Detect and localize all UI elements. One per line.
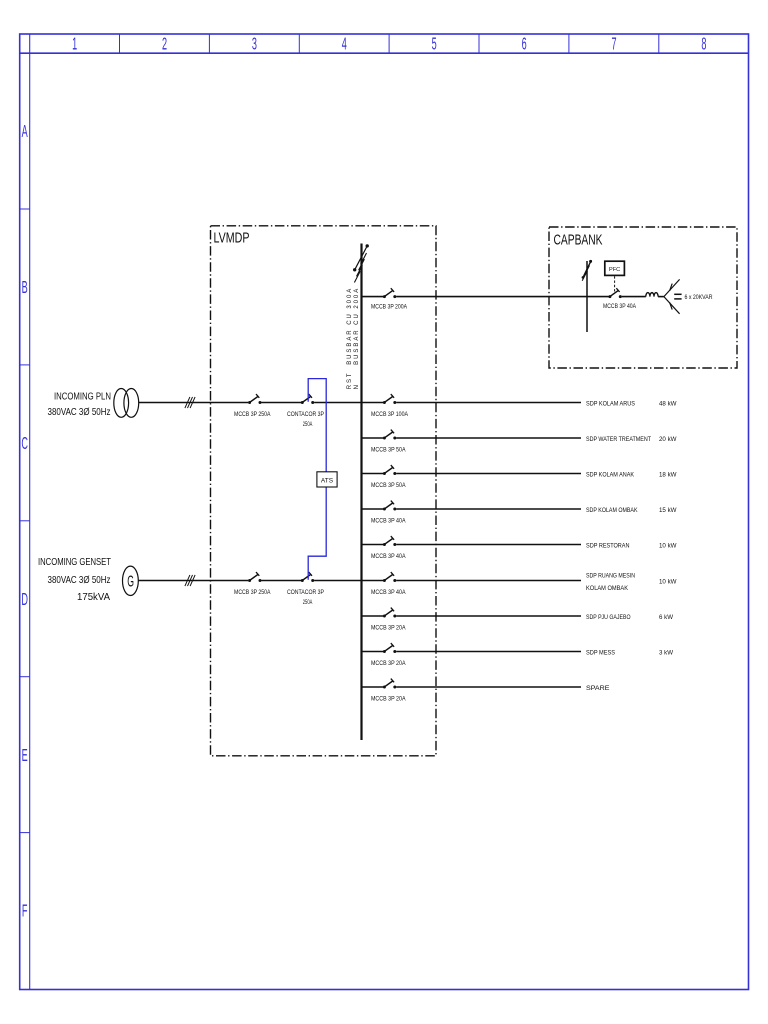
svg-text:BUSBAR CU 200A: BUSBAR CU 200A bbox=[354, 287, 360, 365]
wire capbank feeder into CAPBANK panel bbox=[396, 296, 608, 298]
wire PLN feed to MCCB bbox=[139, 402, 249, 404]
svg-text:A: A bbox=[22, 121, 29, 141]
svg-text:10 kW: 10 kW bbox=[659, 578, 677, 585]
svg-text:INCOMING GENSET: INCOMING GENSET bbox=[38, 557, 111, 568]
svg-text:6: 6 bbox=[522, 33, 527, 53]
wire reactor to capacitor bank bbox=[658, 296, 664, 298]
svg-text:MCCB 3P 50A: MCCB 3P 50A bbox=[371, 482, 406, 489]
wire busbar to breaker (SDP PJU GAJEBO) bbox=[362, 615, 384, 617]
wire breaker to load SDP RESTORAN bbox=[396, 544, 581, 546]
breaker MCCB 3P 250A (genset incoming) bbox=[248, 572, 261, 582]
busbar vertical (LVMDP main bus) bbox=[360, 244, 362, 741]
LVMDP panel enclosure bbox=[211, 226, 437, 756]
svg-text:G: G bbox=[127, 573, 134, 590]
wire breaker to reactor bbox=[622, 296, 646, 298]
capbank riser node bbox=[586, 261, 588, 332]
svg-text:MCCB 3P 100A: MCCB 3P 100A bbox=[371, 411, 409, 418]
svg-text:C: C bbox=[21, 433, 28, 453]
breaker MCCB 3P 50A (SDP WATER TREATMENT) bbox=[383, 430, 396, 440]
svg-text:SDP WATER TREATMENT: SDP WATER TREATMENT bbox=[586, 436, 651, 443]
svg-text:SDP RUANG MESIN: SDP RUANG MESIN bbox=[586, 573, 635, 580]
svg-text:SPARE: SPARE bbox=[586, 685, 610, 692]
3-phase marks on PLN feed bbox=[185, 397, 195, 408]
wire busbar to breaker (SDP KOLAM ARUS) bbox=[362, 402, 384, 404]
svg-text:48 kW: 48 kW bbox=[659, 400, 677, 407]
svg-text:SDP MESS: SDP MESS bbox=[586, 649, 615, 656]
svg-text:D: D bbox=[21, 589, 28, 609]
riser head symbol (blade + 3 slashes) bbox=[582, 260, 592, 281]
wire contactor to busbar (PLN) bbox=[314, 402, 361, 404]
svg-text:MCCB 3P 250A: MCCB 3P 250A bbox=[234, 589, 271, 596]
svg-text:RST: RST bbox=[347, 371, 353, 389]
wire breaker to load SPARE bbox=[396, 686, 581, 688]
svg-text:ATS: ATS bbox=[321, 477, 334, 484]
svg-text:N: N bbox=[354, 383, 360, 389]
svg-text:MCCB 3P 40A: MCCB 3P 40A bbox=[371, 589, 406, 596]
svg-text:MCCB 3P 20A: MCCB 3P 20A bbox=[371, 696, 406, 703]
svg-text:250A: 250A bbox=[303, 599, 313, 606]
3-phase marks on genset feed bbox=[185, 575, 195, 586]
svg-text:F: F bbox=[22, 900, 28, 920]
wire busbar to breaker (SPARE) bbox=[362, 686, 384, 688]
svg-text:20 kW: 20 kW bbox=[659, 436, 677, 443]
generator G symbol bbox=[122, 566, 138, 595]
svg-text:CONTACOR 3P: CONTACOR 3P bbox=[287, 589, 324, 596]
wire breaker to load SDP RUANG MESIN bbox=[396, 580, 581, 582]
svg-text:PFC: PFC bbox=[609, 267, 620, 273]
wire contactor to busbar (genset) bbox=[314, 580, 361, 582]
breaker MCCB 3P 50A (SDP KOLAM ANAK) bbox=[383, 465, 396, 475]
svg-text:MCCB 3P 40A: MCCB 3P 40A bbox=[371, 518, 406, 525]
breaker MCCB 3P 40A (SDP RESTORAN) bbox=[383, 536, 396, 546]
wire busbar to breaker (SDP RESTORAN) bbox=[362, 544, 384, 546]
svg-text:MCCB 3P 50A: MCCB 3P 50A bbox=[371, 447, 406, 454]
svg-text:6 kW: 6 kW bbox=[659, 614, 674, 621]
svg-text:380VAC 3Ø 50Hz: 380VAC 3Ø 50Hz bbox=[48, 575, 111, 586]
wire busbar to breaker (SDP KOLAM ANAK) bbox=[362, 473, 384, 475]
wire busbar to capbank breaker bbox=[362, 296, 384, 298]
svg-text:18 kW: 18 kW bbox=[659, 471, 677, 478]
breaker MCCB 3P 200A (capbank feeder) bbox=[383, 288, 396, 298]
wire breaker to load SDP KOLAM OMBAK bbox=[396, 508, 581, 510]
contactor CONTACOR 3P 250A (PLN) bbox=[301, 394, 314, 404]
svg-text:175kVA: 175kVA bbox=[77, 592, 110, 603]
PFC control dashed wire bbox=[614, 276, 616, 292]
wire breaker to load SDP KOLAM ANAK bbox=[396, 473, 581, 475]
breaker MCCB 3P 20A (SDP PJU GAJEBO) bbox=[383, 608, 396, 618]
wire busbar to breaker (SDP MESS) bbox=[362, 651, 384, 653]
svg-text:MCCB 3P 40A: MCCB 3P 40A bbox=[603, 303, 637, 310]
capacitor bank delta branches bbox=[664, 279, 680, 313]
PFC controller box bbox=[605, 261, 625, 275]
svg-text:KOLAM OMBAK: KOLAM OMBAK bbox=[586, 585, 629, 592]
svg-text:CONTACOR 3P: CONTACOR 3P bbox=[287, 411, 324, 418]
svg-text:SDP KOLAM ANAK: SDP KOLAM ANAK bbox=[586, 471, 635, 478]
breaker MCCB 3P 40A (SDP RUANG MESIN) bbox=[383, 572, 396, 582]
transformer symbol T1 (PLN source) bbox=[114, 389, 139, 418]
wire busbar to breaker (SDP WATER TREATMENT) bbox=[362, 437, 384, 439]
svg-text:SDP RESTORAN: SDP RESTORAN bbox=[586, 542, 630, 549]
capacitor symbol bbox=[674, 294, 681, 299]
wire genset feed to MCCB bbox=[138, 580, 248, 582]
svg-text:8: 8 bbox=[701, 33, 706, 53]
wire MCCB to contactor (PLN) bbox=[261, 402, 301, 404]
ATS box bbox=[317, 472, 337, 487]
wire busbar to breaker (SDP KOLAM OMBAK) bbox=[362, 508, 384, 510]
CAPBANK panel enclosure bbox=[549, 227, 737, 368]
svg-text:B: B bbox=[22, 277, 28, 297]
breaker MCCB 3P 40A (SDP KOLAM OMBAK) bbox=[383, 501, 396, 511]
ATS control wire (ATS to genset contactor) bbox=[308, 487, 326, 580]
svg-text:MCCB 3P 250A: MCCB 3P 250A bbox=[234, 411, 271, 418]
wire breaker to load SDP MESS bbox=[396, 651, 581, 653]
svg-text:SDP KOLAM OMBAK: SDP KOLAM OMBAK bbox=[586, 507, 638, 514]
svg-text:LVMDP: LVMDP bbox=[214, 231, 250, 247]
svg-text:SDP KOLAM ARUS: SDP KOLAM ARUS bbox=[586, 400, 635, 407]
svg-text:3: 3 bbox=[252, 33, 257, 53]
svg-text:CAPBANK: CAPBANK bbox=[554, 233, 603, 249]
wire breaker to load SDP PJU GAJEBO bbox=[396, 615, 581, 617]
wire MCCB to contactor (genset) bbox=[261, 580, 301, 582]
svg-text:MCCB 3P 200A: MCCB 3P 200A bbox=[371, 304, 408, 311]
breaker MCCB 3P 40A (capbank) bbox=[608, 288, 621, 298]
svg-text:INCOMING PLN: INCOMING PLN bbox=[54, 391, 111, 402]
wire busbar to breaker (SDP RUANG MESIN) bbox=[362, 580, 384, 582]
svg-text:1: 1 bbox=[72, 33, 77, 53]
svg-text:4: 4 bbox=[342, 33, 347, 53]
contactor CONTACOR 3P 250A (genset) bbox=[301, 572, 314, 582]
busbar head symbol (blade + 4 conductor slashes) bbox=[353, 244, 369, 282]
svg-text:7: 7 bbox=[611, 33, 616, 53]
svg-text:MCCB 3P 20A: MCCB 3P 20A bbox=[371, 625, 406, 632]
svg-text:6 x 20KVAR: 6 x 20KVAR bbox=[685, 294, 713, 301]
svg-text:3 kW: 3 kW bbox=[659, 649, 674, 656]
wire breaker to load SDP WATER TREATMENT bbox=[396, 437, 581, 439]
breaker MCCB 3P 20A (SPARE) bbox=[383, 679, 396, 689]
reactor / inductor coil bbox=[646, 293, 658, 297]
svg-text:250A: 250A bbox=[303, 421, 313, 428]
breaker MCCB 3P 20A (SDP MESS) bbox=[383, 643, 396, 653]
svg-text:BUSBAR CU 300A: BUSBAR CU 300A bbox=[347, 287, 353, 365]
svg-text:E: E bbox=[22, 744, 28, 764]
svg-text:5: 5 bbox=[432, 33, 437, 53]
svg-text:15 kW: 15 kW bbox=[659, 507, 677, 514]
breaker MCCB 3P 100A (SDP KOLAM ARUS) bbox=[383, 394, 396, 404]
svg-text:MCCB 3P 40A: MCCB 3P 40A bbox=[371, 553, 406, 560]
wire breaker to load SDP KOLAM ARUS bbox=[396, 402, 581, 404]
svg-text:SDP PJU GAJEBO: SDP PJU GAJEBO bbox=[586, 614, 631, 621]
svg-text:380VAC 3Ø 50Hz: 380VAC 3Ø 50Hz bbox=[48, 407, 111, 418]
breaker MCCB 3P 250A (PLN incoming) bbox=[248, 394, 261, 404]
ATS control wire (PLN contactor to ATS) bbox=[308, 379, 326, 472]
busbar net label RST BUSBAR CU 300A bbox=[347, 287, 360, 390]
svg-text:10 kW: 10 kW bbox=[659, 542, 677, 549]
svg-text:2: 2 bbox=[162, 33, 167, 53]
svg-text:MCCB 3P 20A: MCCB 3P 20A bbox=[371, 660, 406, 667]
